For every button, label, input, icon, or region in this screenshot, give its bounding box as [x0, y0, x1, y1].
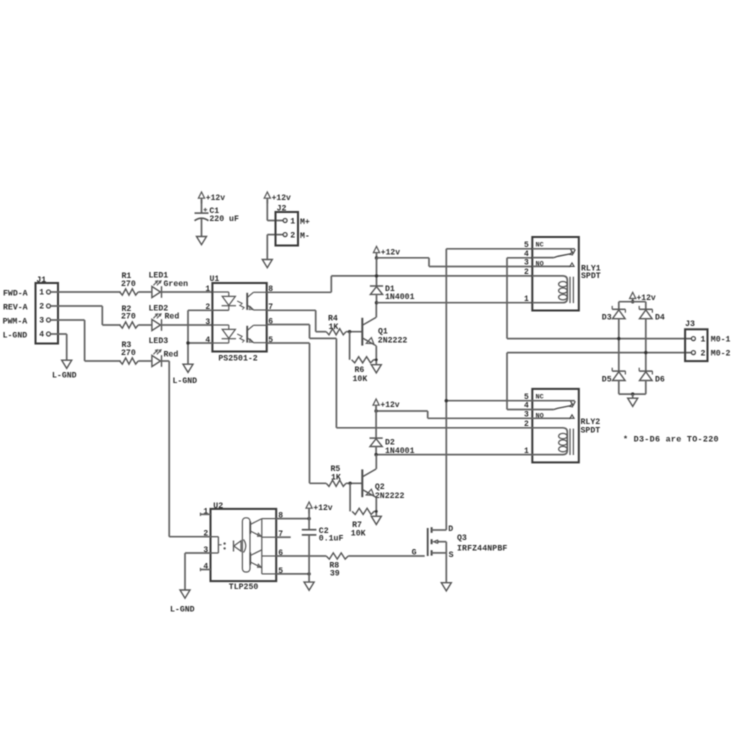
- svg-text:0.1uF: 0.1uF: [319, 535, 344, 544]
- svg-text:1N4001: 1N4001: [385, 447, 415, 456]
- svg-text:+12v: +12v: [381, 248, 400, 257]
- svg-text:2: 2: [39, 303, 44, 312]
- svg-text:5: 5: [524, 241, 529, 250]
- svg-text:NC: NC: [536, 241, 544, 249]
- svg-text:2N2222: 2N2222: [375, 492, 405, 501]
- svg-text:PWM-A: PWM-A: [3, 317, 28, 326]
- svg-text:G: G: [412, 549, 417, 558]
- svg-text:1K: 1K: [331, 474, 341, 483]
- svg-text:3: 3: [205, 318, 210, 327]
- svg-text:M0-2: M0-2: [711, 350, 731, 359]
- svg-text:+12v: +12v: [206, 194, 225, 203]
- svg-text:1: 1: [39, 289, 44, 298]
- svg-text:4: 4: [524, 250, 529, 259]
- svg-text:L-GND: L-GND: [170, 606, 195, 615]
- svg-text:Q2: Q2: [375, 483, 385, 492]
- svg-text:J2: J2: [277, 205, 287, 214]
- svg-text:3: 3: [39, 317, 44, 326]
- svg-text:REV-A: REV-A: [3, 303, 28, 312]
- svg-text:IRFZ44NPBF: IRFZ44NPBF: [457, 545, 507, 554]
- svg-text:D4: D4: [655, 313, 665, 322]
- svg-text:Green: Green: [164, 280, 189, 289]
- svg-text:FWD-A: FWD-A: [3, 289, 28, 298]
- svg-text:L-GND: L-GND: [173, 377, 198, 386]
- svg-text:S: S: [449, 551, 454, 560]
- svg-text:L-GND: L-GND: [3, 331, 28, 340]
- svg-text:D6: D6: [655, 375, 665, 384]
- svg-text:J1: J1: [36, 276, 46, 285]
- svg-text:M-: M-: [300, 232, 310, 241]
- svg-text:R6: R6: [355, 366, 365, 375]
- svg-text:Red: Red: [164, 350, 179, 360]
- svg-text:NO: NO: [536, 260, 544, 268]
- svg-text:M0-1: M0-1: [711, 336, 731, 345]
- svg-text:PS2501-2: PS2501-2: [218, 355, 257, 364]
- svg-text:4: 4: [39, 331, 44, 340]
- svg-text:M+: M+: [300, 218, 310, 227]
- svg-text:U1: U1: [210, 275, 220, 284]
- svg-text:D: D: [448, 525, 453, 534]
- svg-text:1N4001: 1N4001: [385, 293, 415, 302]
- svg-text:NO: NO: [536, 412, 544, 420]
- svg-text:LED3: LED3: [149, 337, 169, 346]
- svg-text:Q1: Q1: [378, 328, 388, 337]
- svg-text:U2: U2: [213, 502, 223, 511]
- svg-text:1: 1: [205, 285, 210, 294]
- svg-text:NC: NC: [536, 393, 544, 401]
- svg-text:+12v: +12v: [380, 401, 399, 410]
- svg-text:* D3-D6 are TO-220: * D3-D6 are TO-220: [623, 435, 719, 445]
- svg-text:2: 2: [701, 350, 706, 359]
- svg-text:1K: 1K: [329, 323, 339, 332]
- svg-text:270: 270: [121, 313, 136, 322]
- svg-text:L-GND: L-GND: [52, 371, 77, 380]
- svg-text:220 uF: 220 uF: [209, 215, 239, 224]
- svg-text:J3: J3: [685, 320, 695, 329]
- svg-text:270: 270: [121, 280, 136, 289]
- svg-text:1: 1: [290, 218, 295, 227]
- svg-text:SPDT: SPDT: [581, 427, 601, 436]
- svg-text:10K: 10K: [351, 530, 366, 539]
- svg-text:39: 39: [330, 569, 340, 578]
- svg-text:2: 2: [290, 232, 295, 241]
- svg-text:TLP250: TLP250: [229, 583, 259, 592]
- svg-text:+12v: +12v: [313, 504, 332, 513]
- svg-text:SPDT: SPDT: [581, 272, 601, 281]
- svg-text:+12v: +12v: [272, 194, 291, 203]
- svg-text:1: 1: [524, 295, 529, 304]
- svg-text:1: 1: [701, 336, 706, 345]
- svg-text:D3: D3: [602, 313, 612, 322]
- svg-text:RLY2: RLY2: [581, 418, 601, 427]
- svg-text:Red: Red: [165, 312, 180, 322]
- svg-text:2: 2: [524, 268, 529, 277]
- svg-text:3: 3: [524, 259, 529, 268]
- svg-text:Q3: Q3: [457, 534, 467, 543]
- svg-text:D5: D5: [602, 375, 612, 384]
- svg-text:270: 270: [121, 349, 136, 358]
- svg-text:R7: R7: [352, 521, 362, 530]
- svg-text:2N2222: 2N2222: [378, 336, 408, 345]
- svg-text:10K: 10K: [353, 375, 368, 384]
